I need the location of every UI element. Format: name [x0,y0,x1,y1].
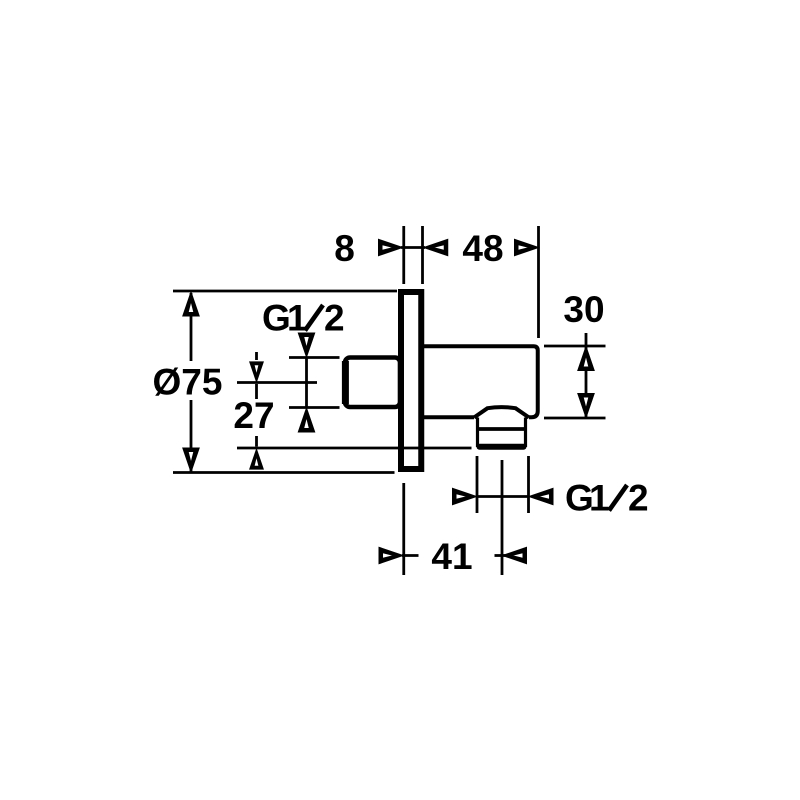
dimension D75 : up arrow [183,292,199,316]
dimension 27 : axis extension line [237,381,317,384]
dimension 27 : upper segment [255,384,258,399]
svg-text:27: 27 [233,395,274,436]
inlet stub thick left face [342,361,349,404]
svg-text:41: 41 [431,536,472,577]
dimension G1/2 outlet : dimension line [477,495,529,498]
dimension D75 : dimension line upper segment [190,293,193,361]
dimension 30 : bottom extension line [544,417,606,420]
dimension 8 : extension line plate front face [402,226,405,284]
outlet nut right side [524,418,527,448]
dimension D75 : down arrow [183,448,199,472]
dimension 30 : dimension line [585,346,588,418]
dimension 41 : left tick [402,554,419,557]
dimension 27 : lower segment [255,436,258,447]
svg-text:2: 2 [628,478,649,519]
svg-text:48: 48 [462,228,503,269]
outlet nut left side [476,418,479,448]
dimension D75 : top extension line [173,290,397,293]
dimension 27 : top arrow [250,362,264,382]
dimension G1/2 outlet : right extension line [527,456,530,513]
svg-text:1: 1 [287,298,308,339]
dimension 30 : top extension line [544,345,606,348]
dimension 30 : upper tail [585,333,588,346]
dimension G1/2 outlet : left arrow [453,488,477,504]
dimension 30 : up arrow [578,347,594,371]
dimension 41 : left arrow [379,547,403,563]
inlet stub (G1/2 supply connection) [345,358,400,408]
dimension 8 : left arrow [379,239,403,255]
outlet nut band line [476,427,527,431]
svg-text:8: 8 [334,228,355,269]
outlet dome outline [474,407,529,417]
dimension 48 : right arrow [515,239,539,255]
svg-text:Ø75: Ø75 [153,362,223,403]
dimension 8 : extension line plate back face [421,226,424,284]
dimension 41 : right arrow [503,547,527,563]
dimension G1/2 inlet : bottom extension line [289,406,340,409]
wall plate (escutcheon, Ø75) [401,292,421,469]
dimension 41 : wall face extension line [402,483,405,575]
svg-text:2: 2 [324,298,345,339]
dimension 48 : extension line body right [537,226,540,338]
dimension G1/2 inlet : bottom arrow [298,408,314,432]
dimension G1/2 inlet : top extension line [289,356,340,359]
dimension G1/2 inlet : dimension line [305,358,308,408]
body (elbow housing) [421,346,538,417]
dimension 8 : right arrow [424,239,448,255]
dimension 41 : right tick [495,554,508,557]
outlet dome fill mask [474,407,529,421]
dimension G1/2 outlet : right arrow [529,488,553,504]
svg-text:1: 1 [589,478,610,519]
dimension D75 : dimension line lower segment [190,400,193,472]
outlet axis line [501,460,504,575]
dimension 30 : down arrow [578,394,594,418]
dimension 8 : dimension line tick [401,246,425,249]
dimension 27 : outlet face extension line [237,447,472,450]
svg-text:30: 30 [563,289,604,330]
dimension G1/2 inlet : top arrow [298,333,314,357]
dimension D75 : bottom extension line [173,471,395,474]
dimension G1/2 outlet : left extension line [476,456,479,513]
dimension 27 : bottom arrow [250,449,264,469]
outlet nut bottom face [480,444,524,450]
dimension 27 : upper tail [255,352,258,360]
